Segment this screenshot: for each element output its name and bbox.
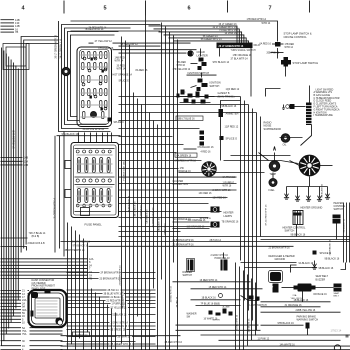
- svg-text:FUEL: FUEL: [269, 189, 276, 192]
- wire: [79, 235, 81, 339]
- svg-text:9A BLACK 16: 9A BLACK 16: [158, 217, 161, 231]
- wire: [1, 264, 88, 266]
- svg-text:13A RED 16: 13A RED 16: [164, 223, 167, 236]
- pin circle: [82, 83, 85, 86]
- ruler tick: [63, 1, 65, 14]
- wire: [119, 128, 200, 130]
- strip divider: [306, 120, 312, 122]
- connector pin: [82, 101, 85, 108]
- fuse clip: [89, 179, 92, 182]
- wire: [349, 203, 350, 263]
- svg-text:6A PINK 16: 6A PINK 16: [223, 176, 236, 179]
- wire: [309, 177, 311, 187]
- wire: [113, 42, 191, 44]
- svg-text:9A BLACK 16: 9A BLACK 16: [299, 262, 314, 265]
- wire: [30, 340, 63, 342]
- hub spoke: [304, 168, 308, 173]
- wire: [67, 289, 107, 291]
- micro text: [77, 173, 113, 174]
- wire: [96, 133, 98, 143]
- ignition switch 2: [198, 79, 203, 83]
- strip divider: [306, 111, 312, 113]
- wire: [61, 241, 121, 243]
- svg-text:37 BLA WTR 14: 37 BLA WTR 14: [231, 58, 249, 61]
- wire: [137, 99, 139, 317]
- wire: [231, 155, 291, 157]
- wire: [121, 278, 155, 280]
- fuse: [85, 189, 88, 203]
- wire: [219, 339, 341, 341]
- hub spoke: [308, 156, 310, 162]
- wire: [111, 309, 113, 350]
- wire: [287, 186, 328, 188]
- svg-text:2B TAN 14: 2B TAN 14: [210, 239, 222, 242]
- ground: [327, 191, 329, 196]
- wire: [28, 302, 30, 304]
- wire: [282, 287, 298, 289]
- wire: [149, 26, 238, 43]
- wire: [119, 144, 184, 146]
- pin dark: [102, 70, 104, 73]
- ground: [314, 261, 316, 266]
- fuse clip: [102, 150, 105, 153]
- wire: [1, 25, 15, 27]
- fuse clip: [83, 150, 86, 153]
- svg-text:SWITCH: SWITCH: [183, 274, 193, 277]
- wire: [132, 336, 156, 338]
- wire: [191, 299, 241, 301]
- svg-text:DR BLUE 16: DR BLUE 16: [314, 294, 328, 296]
- wire: [119, 197, 228, 199]
- instrument cluster hub: [299, 155, 320, 176]
- wire: [71, 20, 263, 22]
- svg-text:HEATER GROUND: HEATER GROUND: [301, 207, 323, 210]
- svg-text:7P BLUE 16 (B&B): 7P BLUE 16 (B&B): [201, 304, 221, 306]
- wire: [259, 153, 269, 161]
- 16 WHITE 16 box: [73, 332, 90, 337]
- ground: [286, 191, 288, 196]
- ground: [308, 193, 310, 198]
- svg-text:5A GREEN 16: 5A GREEN 16: [146, 209, 149, 224]
- wire: [1, 299, 22, 301]
- dimmer switch: [188, 260, 194, 271]
- svg-text:5A GREEN 16: 5A GREEN 16: [113, 325, 128, 328]
- connector column: [200, 131, 205, 135]
- seat belt right connector: [334, 284, 342, 292]
- wire: [277, 48, 279, 59]
- svg-text:21 RED WTR 14: 21 RED WTR 14: [107, 301, 125, 303]
- boxed label 19B LT BLUE 16: [176, 116, 203, 121]
- wiper contact: [216, 313, 221, 316]
- connector pin: [82, 63, 85, 70]
- wire: [121, 289, 156, 291]
- svg-text:16 WHITE 16: 16 WHITE 16: [204, 318, 219, 320]
- pin dark: [91, 58, 93, 61]
- wire: [127, 303, 155, 305]
- wire: [176, 96, 215, 98]
- wire: [261, 311, 341, 313]
- cluster spoke: [207, 163, 208, 167]
- svg-text:SPLICE M: SPLICE M: [320, 252, 332, 255]
- wire: [126, 329, 155, 331]
- hub spoke: [300, 163, 306, 165]
- svg-text:CRUISE CONTROL: CRUISE CONTROL: [284, 35, 308, 39]
- ammeter symbol: [219, 109, 224, 117]
- connector pin: [88, 52, 91, 59]
- svg-text:13B: 13B: [24, 163, 29, 167]
- wire: [61, 335, 181, 337]
- svg-text:14B: 14B: [24, 156, 29, 160]
- wire: [128, 325, 155, 327]
- wire: [128, 314, 155, 316]
- wire: [28, 318, 30, 320]
- svg-text:6A GREEN 16: 6A GREEN 16: [177, 154, 192, 157]
- wire: [119, 104, 249, 106]
- connector pin: [100, 52, 103, 59]
- svg-text:75A: 75A: [22, 333, 27, 336]
- wire loop: [3, 44, 29, 70]
- G circle: [219, 294, 223, 298]
- wire: [1, 315, 22, 317]
- fuse clip: [96, 204, 99, 207]
- wire: [191, 288, 263, 290]
- wire: [13, 63, 15, 317]
- wire: [119, 136, 173, 138]
- wire: [113, 49, 197, 51]
- dash connector mid: [32, 293, 64, 324]
- wire: [1, 330, 22, 332]
- wire: [1, 327, 22, 329]
- fuse clip: [95, 179, 98, 182]
- wire: [103, 301, 105, 350]
- connector pin: [105, 63, 108, 70]
- micro text: [77, 187, 113, 188]
- wire: [296, 225, 298, 237]
- svg-text:6A RED 16: 6A RED 16: [260, 43, 272, 46]
- svg-text:22 BROWN WTR 16: 22 BROWN WTR 16: [173, 245, 195, 247]
- cigar lighter symbol: [188, 51, 193, 56]
- wire: [272, 173, 274, 179]
- wire: [154, 29, 240, 43]
- fuse: [85, 158, 88, 173]
- wire: [67, 278, 99, 280]
- wire loop: [6, 47, 26, 66]
- wire 22 BROWN WTR 16: [89, 245, 294, 247]
- wire: [28, 322, 30, 324]
- svg-text:(B & B): (B & B): [32, 235, 40, 238]
- svg-text:2B TAN 14: 2B TAN 14: [176, 296, 179, 307]
- wire: [67, 293, 103, 295]
- strip divider: [306, 108, 312, 110]
- wire: [17, 69, 19, 301]
- svg-text:OIL: OIL: [283, 144, 288, 147]
- wire: [1, 318, 22, 320]
- wire: [83, 239, 85, 350]
- wire: [99, 297, 101, 350]
- wire: [196, 305, 241, 307]
- splice A body2: [211, 222, 220, 228]
- wire: [71, 30, 161, 32]
- fuse clip: [76, 150, 79, 153]
- wire: [75, 231, 77, 350]
- wire: [260, 117, 262, 237]
- dash connector notch2: [31, 311, 34, 317]
- wire: [24, 40, 59, 249]
- wire: [261, 239, 350, 241]
- turn signal switch: [217, 43, 253, 49]
- svg-text:SPLICE O: SPLICE O: [226, 137, 238, 140]
- watermark dot: [346, 335, 349, 338]
- hub spoke: [300, 167, 306, 169]
- wire: [28, 296, 30, 298]
- cluster spoke: [204, 171, 207, 174]
- pin circle: [104, 107, 107, 110]
- connector pin: [100, 76, 103, 83]
- svg-text:1QF RED 12: 1QF RED 12: [226, 88, 240, 91]
- svg-text:1 GRAY WTR 14: 1 GRAY WTR 14: [111, 322, 129, 325]
- svg-text:1B BLACK 16: 1B BLACK 16: [202, 297, 217, 300]
- wire: [1, 274, 88, 276]
- wire: [251, 279, 253, 341]
- micro text: [77, 164, 113, 165]
- fuse element: [108, 191, 110, 201]
- wire: [169, 32, 171, 350]
- parking brake switch: [306, 323, 310, 329]
- heater control switch body: [293, 211, 303, 225]
- wire: [119, 211, 222, 213]
- wire: [159, 32, 242, 43]
- svg-text:13A: 13A: [24, 160, 29, 164]
- wire: [121, 37, 123, 344]
- wire: [145, 16, 147, 350]
- svg-text:SPLICE C: SPLICE C: [114, 122, 125, 124]
- fuse clip: [102, 204, 105, 207]
- wire: [343, 203, 345, 263]
- connector pin: [83, 112, 86, 119]
- ground: [319, 193, 321, 198]
- wire: [30, 349, 63, 350]
- switch contact: [205, 95, 209, 99]
- wire: [67, 325, 112, 327]
- ground: [283, 105, 285, 108]
- wire: [90, 133, 92, 143]
- pin circle: [99, 82, 102, 85]
- wire: [119, 152, 177, 154]
- wire: [1, 31, 15, 33]
- wire: [119, 183, 237, 185]
- wire: [1, 293, 22, 295]
- connector pin: [94, 89, 97, 96]
- battery terminal: [334, 345, 340, 350]
- wire: [1, 278, 88, 280]
- wire: [21, 37, 58, 253]
- svg-text:TB ORANGE 16: TB ORANGE 16: [222, 220, 239, 223]
- wire loop: [68, 32, 119, 121]
- fuse clip: [76, 179, 79, 182]
- micro text: [81, 80, 107, 81]
- svg-text:7B: 7B: [15, 30, 18, 34]
- micro text: [81, 93, 107, 94]
- wire: [78, 133, 80, 143]
- cluster spoke: [203, 165, 207, 167]
- svg-text:SWITCH: SWITCH: [334, 208, 344, 211]
- hub center: [307, 163, 312, 168]
- pin circle: [88, 69, 91, 72]
- wire: [102, 133, 104, 143]
- svg-text:8A RED 16: 8A RED 16: [136, 69, 148, 72]
- wire: [87, 243, 89, 333]
- wire: [28, 290, 30, 292]
- wire: [149, 113, 151, 350]
- svg-text:CLUSTER: CLUSTER: [173, 181, 184, 183]
- fuse element: [78, 160, 80, 171]
- fuse: [78, 158, 81, 173]
- wire: [67, 303, 111, 305]
- wire: [1, 261, 88, 263]
- wire: [111, 133, 113, 143]
- connector pin: [105, 89, 108, 96]
- strip divider: [306, 123, 312, 125]
- cluster center: [207, 167, 210, 170]
- fuse clip: [76, 204, 79, 207]
- connector pin: [88, 89, 91, 96]
- wire: [71, 227, 73, 345]
- switch contact: [188, 94, 193, 98]
- ruler tick: [227, 1, 229, 13]
- svg-text:SPLICE E: SPLICE E: [119, 81, 130, 83]
- fuse clip: [102, 179, 105, 182]
- wire: [91, 289, 93, 350]
- svg-text:9B BLACK 16: 9B BLACK 16: [222, 105, 237, 108]
- wire: [28, 315, 30, 317]
- wire: [341, 263, 346, 270]
- wire: [173, 221, 210, 223]
- wire: [1, 268, 88, 270]
- wire loop: [62, 25, 161, 129]
- wire: [1, 302, 22, 304]
- fuse element: [93, 191, 95, 201]
- hub spoke: [312, 158, 316, 163]
- fuse clip: [108, 150, 111, 153]
- oil gauge: [281, 134, 290, 143]
- wire: [30, 330, 63, 332]
- wire: [266, 89, 281, 97]
- strip divider: [306, 117, 312, 119]
- splice C: [108, 118, 112, 122]
- grommet: [91, 112, 97, 118]
- wire: [67, 300, 106, 302]
- svg-text:21A: 21A: [293, 294, 297, 297]
- wire: [164, 35, 244, 43]
- pin circle: [94, 95, 97, 98]
- wire: [235, 263, 237, 350]
- fuse: [107, 158, 110, 173]
- wire: [219, 48, 221, 56]
- wire: [248, 105, 250, 311]
- svg-text:ACC: ACC: [182, 91, 187, 94]
- splice A: [211, 207, 220, 213]
- svg-text:19B LT BLUE 16: 19B LT BLUE 16: [178, 119, 196, 121]
- svg-text:BELT: BELT: [334, 296, 340, 298]
- wire: [84, 133, 86, 143]
- wire: [119, 176, 237, 178]
- cluster spoke: [210, 163, 212, 167]
- svg-text:1HF YELLOW 12: 1HF YELLOW 12: [173, 69, 191, 71]
- hub spoke: [312, 168, 316, 173]
- svg-text:SUPPRESSOR: SUPPRESSOR: [264, 128, 282, 131]
- fuse clip: [83, 179, 86, 182]
- wire: [292, 106, 306, 108]
- wire: [247, 275, 249, 346]
- wire: [119, 217, 209, 219]
- svg-text:1QF RED 12: 1QF RED 12: [225, 126, 239, 129]
- connector pin: [88, 63, 91, 70]
- wire: [10, 60, 12, 323]
- svg-text:23 BROWN WTR 16: 23 BROWN WTR 16: [120, 265, 122, 286]
- wire: [28, 293, 30, 295]
- wire: [161, 23, 163, 280]
- wire: [122, 272, 155, 274]
- wire loop: [71, 35, 115, 117]
- svg-text:WTR 14: WTR 14: [285, 47, 294, 49]
- wiper contact: [229, 312, 233, 316]
- wire: [67, 336, 117, 338]
- connector pin: [88, 76, 91, 83]
- wire: [67, 272, 100, 274]
- wire: [28, 299, 30, 301]
- svg-text:3B BLACK 16: 3B BLACK 16: [343, 218, 346, 232]
- svg-text:WTR 14: WTR 14: [262, 22, 271, 25]
- svg-text:3B BLUE WTR 14: 3B BLUE WTR 14: [104, 294, 123, 296]
- wire: [129, 322, 155, 324]
- svg-text:21 BLUE 16: 21 BLUE 16: [111, 297, 124, 299]
- wire: [15, 66, 17, 309]
- wire: [1, 290, 22, 292]
- micro text: [81, 105, 107, 106]
- fuse element: [100, 191, 102, 201]
- fuse element: [78, 191, 80, 201]
- svg-text:3A WHITE WTR 16: 3A WHITE WTR 16: [83, 128, 105, 131]
- wire: [119, 52, 187, 54]
- fuse: [100, 189, 103, 203]
- fuse element: [100, 160, 102, 171]
- wire: [119, 226, 211, 228]
- svg-text:IGNITION SWITCH: IGNITION SWITCH: [188, 72, 210, 75]
- boxed label 6A GREEN 16: [175, 153, 197, 157]
- wire: [252, 109, 254, 321]
- wire loop: [59, 21, 111, 132]
- wire: [274, 153, 276, 161]
- fuse clip: [89, 204, 92, 207]
- svg-text:SWITCH: SWITCH: [210, 85, 220, 88]
- fuse: [92, 158, 95, 173]
- connector pin: [105, 52, 108, 59]
- wire: [5, 54, 7, 335]
- svg-text:14A WHITE 16: 14A WHITE 16: [248, 318, 251, 333]
- svg-text:9F-213 RED WTR 16: 9F-213 RED WTR 16: [266, 204, 268, 226]
- wire: [1, 157, 23, 159]
- cluster connector: [202, 162, 216, 176]
- svg-text:LIGHTER: LIGHTER: [197, 53, 208, 57]
- wire: [57, 135, 121, 137]
- wire: [1, 322, 22, 324]
- wire 2B TAN 14: [89, 241, 350, 243]
- wire: [129, 45, 131, 350]
- dash connector blob: [31, 292, 38, 298]
- connector pin: [88, 101, 91, 108]
- svg-text:STD BLACK 14: STD BLACK 14: [213, 61, 230, 64]
- wire: [221, 101, 241, 109]
